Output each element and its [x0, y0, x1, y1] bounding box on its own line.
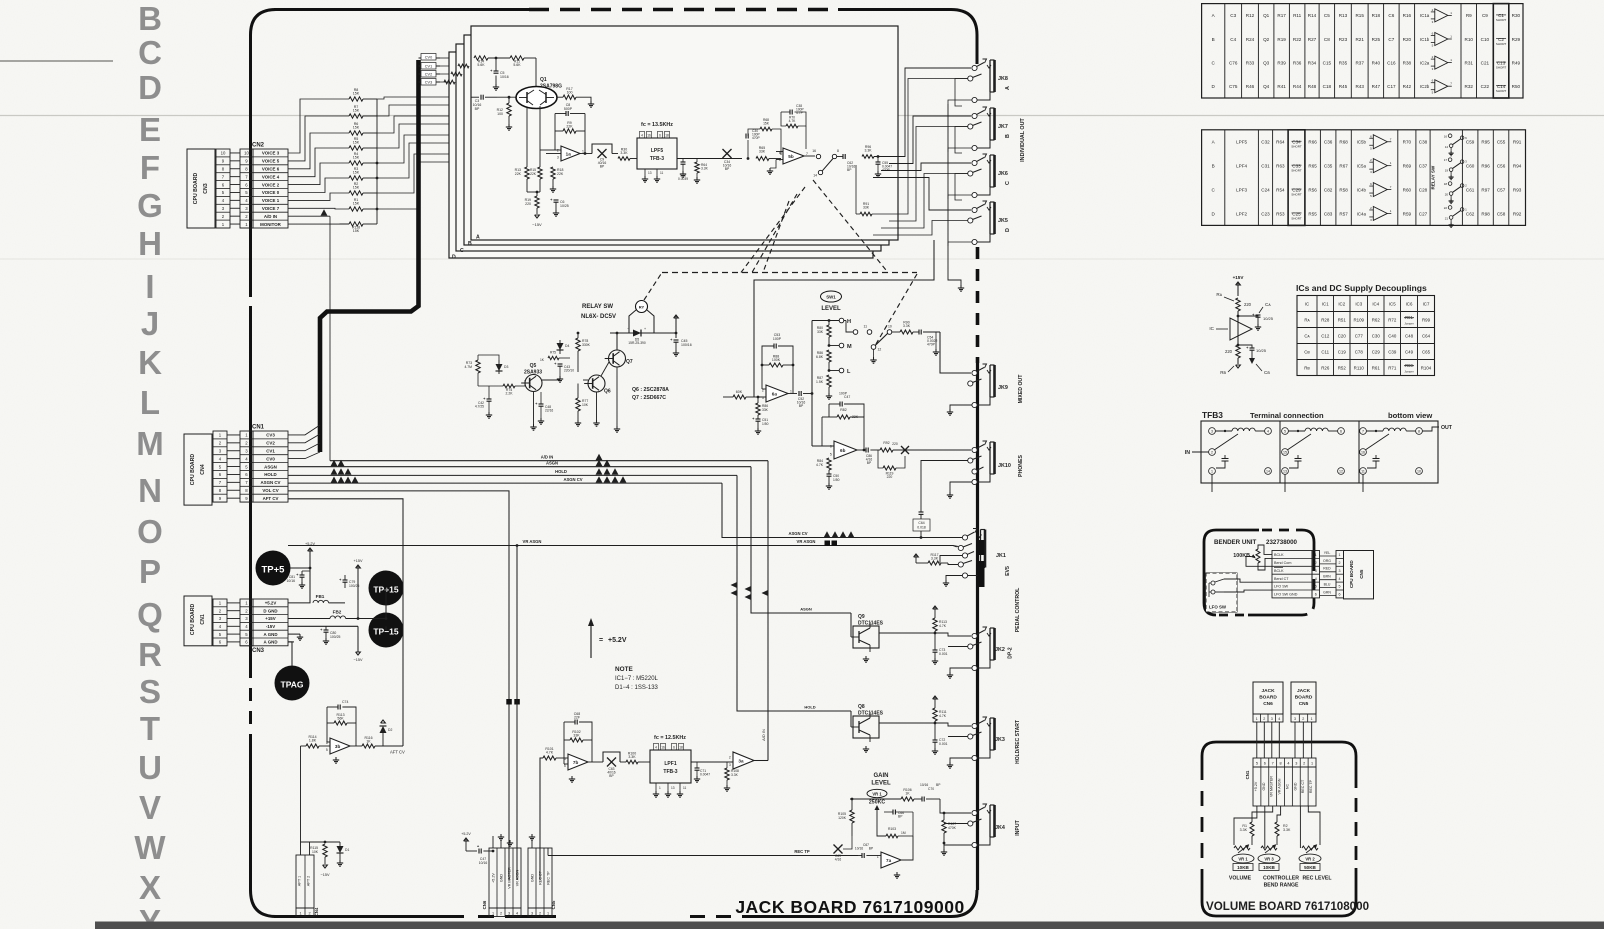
svg-text:1/50: 1/50	[762, 422, 769, 426]
svg-text:3: 3	[1211, 430, 1213, 434]
svg-text:BOARD: BOARD	[1259, 695, 1277, 701]
svg-text:AFT CV: AFT CV	[390, 750, 405, 755]
svg-text:5.6K: 5.6K	[477, 63, 485, 67]
svg-text:R95: R95	[1481, 140, 1490, 145]
svg-text:C4: C4	[1230, 37, 1236, 42]
svg-text:CN1: CN1	[252, 425, 265, 431]
bender wiring	[1258, 543, 1266, 546]
paper fold line 2	[0, 258, 1604, 260]
wire A GND 2	[288, 641, 294, 643]
svg-text:C65: C65	[1422, 349, 1431, 354]
decoupling capacitor Cb 10/25	[1238, 345, 1252, 348]
resistor R17 100	[557, 96, 563, 98]
switch SW1 label	[821, 291, 842, 302]
svg-text:R59: R59	[1403, 211, 1412, 216]
jack JK7	[977, 111, 984, 115]
svg-text:R27: R27	[1308, 37, 1317, 42]
svg-text:33K: 33K	[762, 408, 769, 412]
svg-text:R54: R54	[1276, 187, 1285, 192]
svg-text:GND: GND	[1262, 782, 1266, 790]
svg-text:CV2: CV2	[266, 441, 275, 446]
svg-text:100/16: 100/16	[681, 343, 692, 347]
vertical bus right of resistors	[376, 99, 378, 224]
JK10 sleeve ground	[950, 482, 972, 492]
svg-text:4: 4	[1315, 577, 1317, 581]
-15V arrow channel	[536, 208, 538, 214]
svg-text:10: 10	[221, 151, 226, 156]
modulator cell record	[603, 752, 620, 762]
svg-text:−: −	[627, 327, 629, 331]
svg-text:C74: C74	[342, 700, 348, 704]
svg-text:4: 4	[1287, 762, 1289, 766]
svg-text:C3: C3	[1230, 13, 1236, 18]
signal triangles on verticals	[731, 582, 738, 589]
svg-text:C59: C59	[1466, 140, 1475, 145]
svg-text:6: 6	[1340, 430, 1342, 434]
capacitor C81 10/16	[300, 574, 305, 576]
svg-text:C21: C21	[1481, 60, 1490, 65]
ground CN6 area	[509, 840, 511, 843]
svg-text:REC TP: REC TP	[794, 849, 810, 854]
capacitor C52 10/16 BP	[788, 393, 797, 395]
svg-text:100: 100	[567, 91, 573, 95]
svg-text:50KB: 50KB	[1304, 865, 1316, 870]
svg-text:11: 11	[1361, 470, 1365, 474]
wire HOLD horizontal	[288, 474, 737, 476]
svg-text:IC: IC	[1305, 301, 1309, 306]
jack board outline bottom-right corner	[951, 890, 977, 917]
ASGN CV triangles	[596, 476, 603, 483]
svg-text:R48: R48	[1308, 84, 1317, 89]
svg-text:22F: 22F	[574, 716, 580, 720]
relay RY	[636, 301, 648, 313]
svg-text:Cᴀ: Cᴀ	[1304, 333, 1310, 338]
VR ASGN junction squares	[825, 541, 831, 547]
CV flag CV3	[419, 81, 441, 83]
svg-text:CN5: CN5	[1299, 701, 1309, 707]
svg-text:R92: R92	[883, 441, 889, 445]
svg-text:6b: 6b	[840, 448, 846, 453]
svg-text:TP+5: TP+5	[262, 565, 286, 576]
svg-text:15K: 15K	[353, 171, 360, 175]
svg-text:CV2: CV2	[425, 73, 432, 77]
svg-text:VOICE 5: VOICE 5	[262, 159, 280, 164]
svg-text:R29: R29	[1512, 37, 1521, 42]
svg-text:C17: C17	[1387, 84, 1396, 89]
svg-text:C12: C12	[1321, 333, 1330, 338]
svg-text:CPU BOARD: CPU BOARD	[1349, 560, 1354, 589]
svg-text:22K: 22K	[566, 125, 573, 129]
svg-text:1: 1	[1256, 717, 1258, 721]
svg-text:SHORT: SHORT	[1496, 65, 1507, 69]
svg-text:VR 1: VR 1	[872, 792, 882, 797]
svg-text:R94: R94	[1513, 163, 1522, 168]
svg-text:JK9: JK9	[998, 385, 1008, 391]
ASGN triangles	[596, 460, 603, 467]
svg-text:13: 13	[648, 171, 652, 175]
svg-text:K: K	[138, 344, 162, 381]
svg-text:16: 16	[812, 149, 816, 153]
svg-text:+5.2V: +5.2V	[1254, 781, 1258, 791]
dashed switch line board B	[741, 187, 805, 273]
svg-text:10K: 10K	[312, 850, 319, 854]
vertical HOLD wire	[737, 475, 851, 711]
svg-text:R72: R72	[1388, 317, 1397, 322]
JK2 mid contact wire	[948, 646, 968, 648]
svg-text:4: 4	[1339, 577, 1341, 581]
HOLD triangles	[596, 468, 603, 475]
svg-text:IC4a: IC4a	[1357, 211, 1367, 216]
TFB3 pin 1	[1209, 468, 1216, 475]
svg-text:S: S	[139, 673, 161, 710]
svg-text:IC1: IC1	[1322, 301, 1329, 306]
contact L	[828, 362, 830, 371]
svg-text:C40: C40	[1388, 333, 1397, 338]
svg-text:R92: R92	[1513, 211, 1522, 216]
svg-text:R26: R26	[1321, 365, 1330, 370]
svg-text:IC7: IC7	[1423, 301, 1430, 306]
svg-text:FB1: FB1	[316, 594, 325, 599]
svg-text:-15V: -15V	[266, 624, 275, 629]
wire CN2 to resistors staircase	[288, 99, 349, 153]
wire VR ASGN vertical to CN6	[516, 546, 518, 881]
triangles near CN1	[331, 460, 338, 467]
svg-text:10: 10	[888, 325, 892, 329]
svg-text:YEL: YEL	[1324, 551, 1331, 555]
TFB3 pin 2	[1209, 449, 1216, 456]
svg-text:H: H	[847, 319, 851, 325]
svg-text:LPF1: LPF1	[664, 761, 676, 767]
svg-text:R68: R68	[1339, 140, 1348, 145]
svg-text:4.7K: 4.7K	[816, 463, 824, 467]
svg-text:JK6: JK6	[998, 171, 1008, 177]
capacitor C51 1/50	[756, 418, 761, 420]
svg-text:MIXED OUT: MIXED OUT	[1018, 374, 1024, 404]
pot VR3 symbol	[1261, 846, 1277, 850]
svg-text:CV0: CV0	[425, 56, 432, 60]
TFB3 pin 8	[1416, 428, 1423, 435]
wire VR ASGN horizontal	[288, 545, 953, 547]
capacitor C3 10/16 BP	[480, 95, 482, 100]
svg-text:C64: C64	[918, 521, 924, 525]
svg-text:C24: C24	[1261, 187, 1270, 192]
contact H	[839, 318, 844, 323]
capacitor C13 0.0039	[677, 158, 700, 160]
Q8 collector wire	[879, 722, 935, 724]
resistor R86 6.8K	[827, 350, 831, 362]
svg-text:R58: R58	[1339, 187, 1348, 192]
svg-text:7b: 7b	[573, 760, 579, 765]
svg-text:IC6: IC6	[1406, 301, 1413, 306]
svg-text:JK5: JK5	[998, 218, 1008, 224]
svg-text:3.3K: 3.3K	[931, 557, 939, 561]
svg-text:10: 10	[244, 151, 249, 156]
svg-text:R11: R11	[1293, 13, 1302, 18]
svg-text:10/25: 10/25	[1256, 348, 1267, 353]
svg-text:C36: C36	[1324, 140, 1333, 145]
jack board edge stub to JK8	[976, 35, 979, 64]
resistor R119 220	[883, 466, 896, 470]
svg-text:6a: 6a	[772, 391, 778, 396]
svg-text:1/50: 1/50	[833, 478, 840, 482]
wire AFT CV to CN1	[288, 499, 403, 746]
resistor R87 1.5K	[827, 375, 831, 387]
svg-text:R10: R10	[1465, 37, 1474, 42]
svg-text:R91: R91	[1513, 140, 1522, 145]
svg-text:15K: 15K	[353, 126, 360, 130]
svg-text:16: 16	[647, 134, 651, 138]
svg-text:6: 6	[1315, 593, 1317, 597]
contact M	[828, 337, 830, 346]
LFO SW dashed box	[1206, 573, 1237, 612]
svg-text:fc = 12.5KHz: fc = 12.5KHz	[654, 735, 686, 741]
svg-text:D4: D4	[565, 344, 569, 348]
svg-text:R30: R30	[1512, 13, 1521, 18]
svg-text:18: 18	[665, 134, 669, 138]
svg-text:8: 8	[1418, 430, 1420, 434]
level switch wiper contacts	[844, 320, 846, 322]
svg-text:EV5: EV5	[1005, 566, 1011, 576]
resistor R92 220	[880, 448, 893, 452]
JK3 sleeve ground	[950, 758, 972, 762]
svg-text:2: 2	[1263, 717, 1265, 721]
svg-text:SW1: SW1	[826, 295, 836, 300]
svg-text:13: 13	[671, 786, 675, 790]
svg-text:BOARD: BOARD	[1295, 695, 1313, 701]
svg-text:5b: 5b	[788, 154, 794, 159]
svg-text:R32: R32	[1465, 84, 1474, 89]
svg-text:C15: C15	[1323, 60, 1332, 65]
parts table 1 short cell box	[1493, 4, 1509, 98]
transistor Q7	[609, 350, 626, 367]
svg-text:60K: 60K	[736, 390, 743, 394]
resistor R107 470K	[942, 820, 946, 833]
connector CN5	[528, 848, 552, 908]
svg-text:VOL CV: VOL CV	[262, 488, 278, 493]
svg-text:CN2: CN2	[252, 143, 265, 149]
svg-text:VR ASGN: VR ASGN	[523, 539, 542, 544]
svg-text:2: 2	[1211, 451, 1213, 455]
svg-text:2: 2	[539, 912, 541, 916]
resistor R30 3.3K	[618, 157, 630, 161]
svg-text:D1−4 : 1SS-133: D1−4 : 1SS-133	[615, 685, 659, 691]
resistor R64 3.3K	[695, 162, 699, 173]
+5.2V supply arrow	[308, 548, 313, 551]
svg-text:IC2a: IC2a	[1420, 60, 1430, 65]
registration mark	[0, 60, 113, 62]
svg-text:16: 16	[661, 746, 665, 750]
svg-text:R19: R19	[1277, 37, 1286, 42]
svg-text:R55: R55	[1308, 211, 1317, 216]
svg-text:3: 3	[1271, 717, 1273, 721]
jack board outline top-right corner	[951, 10, 977, 36]
relay switch symbol row D	[1448, 206, 1452, 210]
svg-text:fc = 13.5KHz: fc = 13.5KHz	[641, 122, 673, 128]
TFB3 pin 11	[1360, 468, 1367, 475]
resistor R80 33K	[827, 325, 831, 337]
svg-text:GAIN: GAIN	[874, 773, 889, 779]
svg-text:LEVEL: LEVEL	[821, 306, 841, 312]
svg-text:12: 12	[1339, 470, 1343, 474]
svg-text:CPU BOARD: CPU BOARD	[190, 603, 196, 635]
volume board outline	[1216, 742, 1356, 774]
vertical ASGN CV to JK1	[722, 483, 962, 537]
svg-text:4: 4	[516, 912, 518, 916]
BCLK overline	[1274, 567, 1283, 569]
svg-text:R34: R34	[1308, 60, 1317, 65]
svg-text:CN3: CN3	[252, 648, 265, 654]
jack JK4 INPUT	[977, 808, 984, 812]
resistor R77 10K	[576, 398, 580, 411]
capacitor C64 0.018	[920, 470, 922, 512]
output switch wiper 14	[818, 170, 822, 174]
wire -15V from CN3	[288, 625, 326, 627]
svg-text:22: 22	[1444, 206, 1448, 210]
svg-text:C23: C23	[1261, 211, 1270, 216]
svg-text:LFO SW GND: LFO SW GND	[1274, 593, 1298, 597]
svg-text:C9: C9	[1482, 13, 1488, 18]
TFB3 pin 7	[1360, 428, 1367, 435]
svg-text:R60: R60	[1403, 187, 1412, 192]
svg-text:R75: R75	[550, 351, 556, 355]
6b feedback resistor R82 22K	[837, 415, 850, 419]
svg-text:B: B	[468, 241, 472, 247]
6b feedback capacitor C47 100P	[839, 402, 841, 407]
svg-text:15K: 15K	[353, 92, 360, 96]
svg-text:RELAY SW: RELAY SW	[1431, 165, 1436, 189]
op-amp 1a	[561, 146, 580, 161]
svg-text:IC: IC	[1209, 326, 1214, 331]
jack board right edge dashed segment	[976, 247, 980, 363]
svg-text:P: P	[139, 553, 161, 590]
svg-text:R18: R18	[1372, 13, 1381, 18]
3b ground	[324, 750, 330, 756]
svg-text:C30: C30	[1372, 333, 1381, 338]
filter parts table 2	[1202, 130, 1526, 226]
decoupling capacitor Ca 10/25	[1256, 314, 1261, 316]
TFB3 capacitor 5	[1297, 443, 1299, 452]
svg-text:1: 1	[547, 912, 549, 916]
CN3 pin numbers	[216, 149, 230, 228]
svg-text:C39: C39	[1388, 349, 1397, 354]
svg-text:D1: D1	[345, 848, 349, 852]
wire TPAG	[288, 642, 292, 666]
svg-text:JK8: JK8	[998, 76, 1008, 82]
svg-text:220: 220	[525, 202, 531, 206]
op-amp IC symbol row C	[1435, 56, 1448, 69]
svg-text:CV1: CV1	[266, 449, 275, 454]
svg-text:33K: 33K	[863, 206, 870, 210]
svg-text:IC1−7 : M5220L: IC1−7 : M5220L	[615, 676, 659, 682]
JK1 sleeve ground	[946, 576, 962, 581]
svg-text:REC LEVEL: REC LEVEL	[1302, 876, 1332, 882]
connector CN6	[489, 848, 521, 908]
svg-text:A: A	[476, 235, 480, 241]
svg-text:ASGN: ASGN	[800, 607, 812, 612]
test point TP+5	[256, 551, 291, 586]
svg-text:R64: R64	[1276, 140, 1285, 145]
svg-text:ICs and DC Supply Decouplings: ICs and DC Supply Decouplings	[1296, 283, 1427, 293]
svg-text:Q1: Q1	[540, 77, 547, 83]
svg-text:R23: R23	[1339, 37, 1348, 42]
svg-text:B: B	[1212, 37, 1215, 42]
svg-text:6: 6	[830, 445, 832, 449]
resistor R100 3.3K	[626, 760, 638, 764]
svg-text:C77: C77	[1355, 333, 1364, 338]
6b output capacitor C86	[857, 449, 864, 451]
JK1 contact wires	[953, 546, 958, 547]
resistor R3 15K	[349, 176, 363, 180]
wire VOL CV to VR MASTER	[288, 491, 509, 880]
svg-text:3.3K: 3.3K	[731, 773, 739, 777]
svg-text:22K: 22K	[557, 172, 564, 176]
svg-text:SHORT: SHORT	[1496, 89, 1507, 93]
svg-text:REC TP: REC TP	[547, 871, 551, 885]
svg-text:10/25: 10/25	[560, 204, 569, 208]
svg-text:D: D	[1005, 228, 1011, 232]
svg-text:Rᴀ: Rᴀ	[1216, 292, 1222, 297]
svg-text:C32: C32	[1261, 140, 1270, 145]
svg-text:G: G	[137, 187, 163, 224]
resistor R75 1K	[548, 356, 559, 359]
svg-text:15K: 15K	[353, 141, 360, 145]
svg-text:CN4: CN4	[314, 907, 319, 916]
svg-text:NL6X- DC5V: NL6X- DC5V	[581, 314, 616, 320]
svg-text:VR ASGN: VR ASGN	[1278, 778, 1282, 794]
LFO switch contacts	[1211, 581, 1215, 585]
svg-text:C78: C78	[1355, 349, 1364, 354]
svg-text:33K: 33K	[759, 150, 766, 154]
svg-text:Jumper: Jumper	[1404, 370, 1413, 374]
wire ASGN CV horizontal	[288, 482, 722, 484]
svg-text:C82: C82	[1324, 187, 1333, 192]
svg-text:PEDAL CONTROL: PEDAL CONTROL	[1015, 587, 1021, 632]
svg-text:C20: C20	[1338, 333, 1347, 338]
svg-text:1: 1	[877, 855, 879, 859]
svg-text:100K: 100K	[772, 358, 781, 362]
svg-text:T: T	[140, 710, 160, 747]
wire A/D IN horizontal	[330, 460, 768, 462]
jack board CN6 box	[1253, 682, 1283, 714]
capacitor C66 BP	[892, 810, 894, 815]
svg-text:LPF5: LPF5	[651, 148, 663, 154]
svg-text:3.3K: 3.3K	[1240, 828, 1248, 832]
resistor R105 120K	[850, 810, 854, 823]
CV flag CV2	[419, 73, 441, 75]
svg-text:4: 4	[641, 134, 643, 138]
wire relay supply	[577, 372, 579, 383]
svg-text:R96: R96	[1481, 163, 1490, 168]
wire A/D IN from CN2	[288, 215, 330, 217]
svg-text:VOICE 6: VOICE 6	[262, 167, 280, 172]
svg-text:7a: 7a	[886, 858, 892, 863]
svg-text:VOICE 7: VOICE 7	[262, 206, 280, 211]
svg-text:DP-2: DP-2	[1008, 647, 1014, 659]
svg-text:22/16: 22/16	[545, 409, 553, 413]
svg-text:Q3: Q3	[1263, 60, 1270, 65]
svg-text:2: 2	[1315, 561, 1317, 565]
svg-text:11: 11	[660, 171, 664, 175]
diode D4	[559, 340, 561, 354]
svg-text:OUT: OUT	[1441, 425, 1453, 431]
svg-text:SHORT: SHORT	[1496, 42, 1507, 46]
svg-text:REC CT: REC CT	[1301, 779, 1305, 793]
svg-text:SHORT: SHORT	[1291, 145, 1302, 149]
resistor R6 15K	[349, 131, 363, 135]
svg-text:2: 2	[500, 912, 502, 916]
svg-text:250KC: 250KC	[869, 800, 885, 806]
svg-text:D: D	[452, 255, 456, 261]
